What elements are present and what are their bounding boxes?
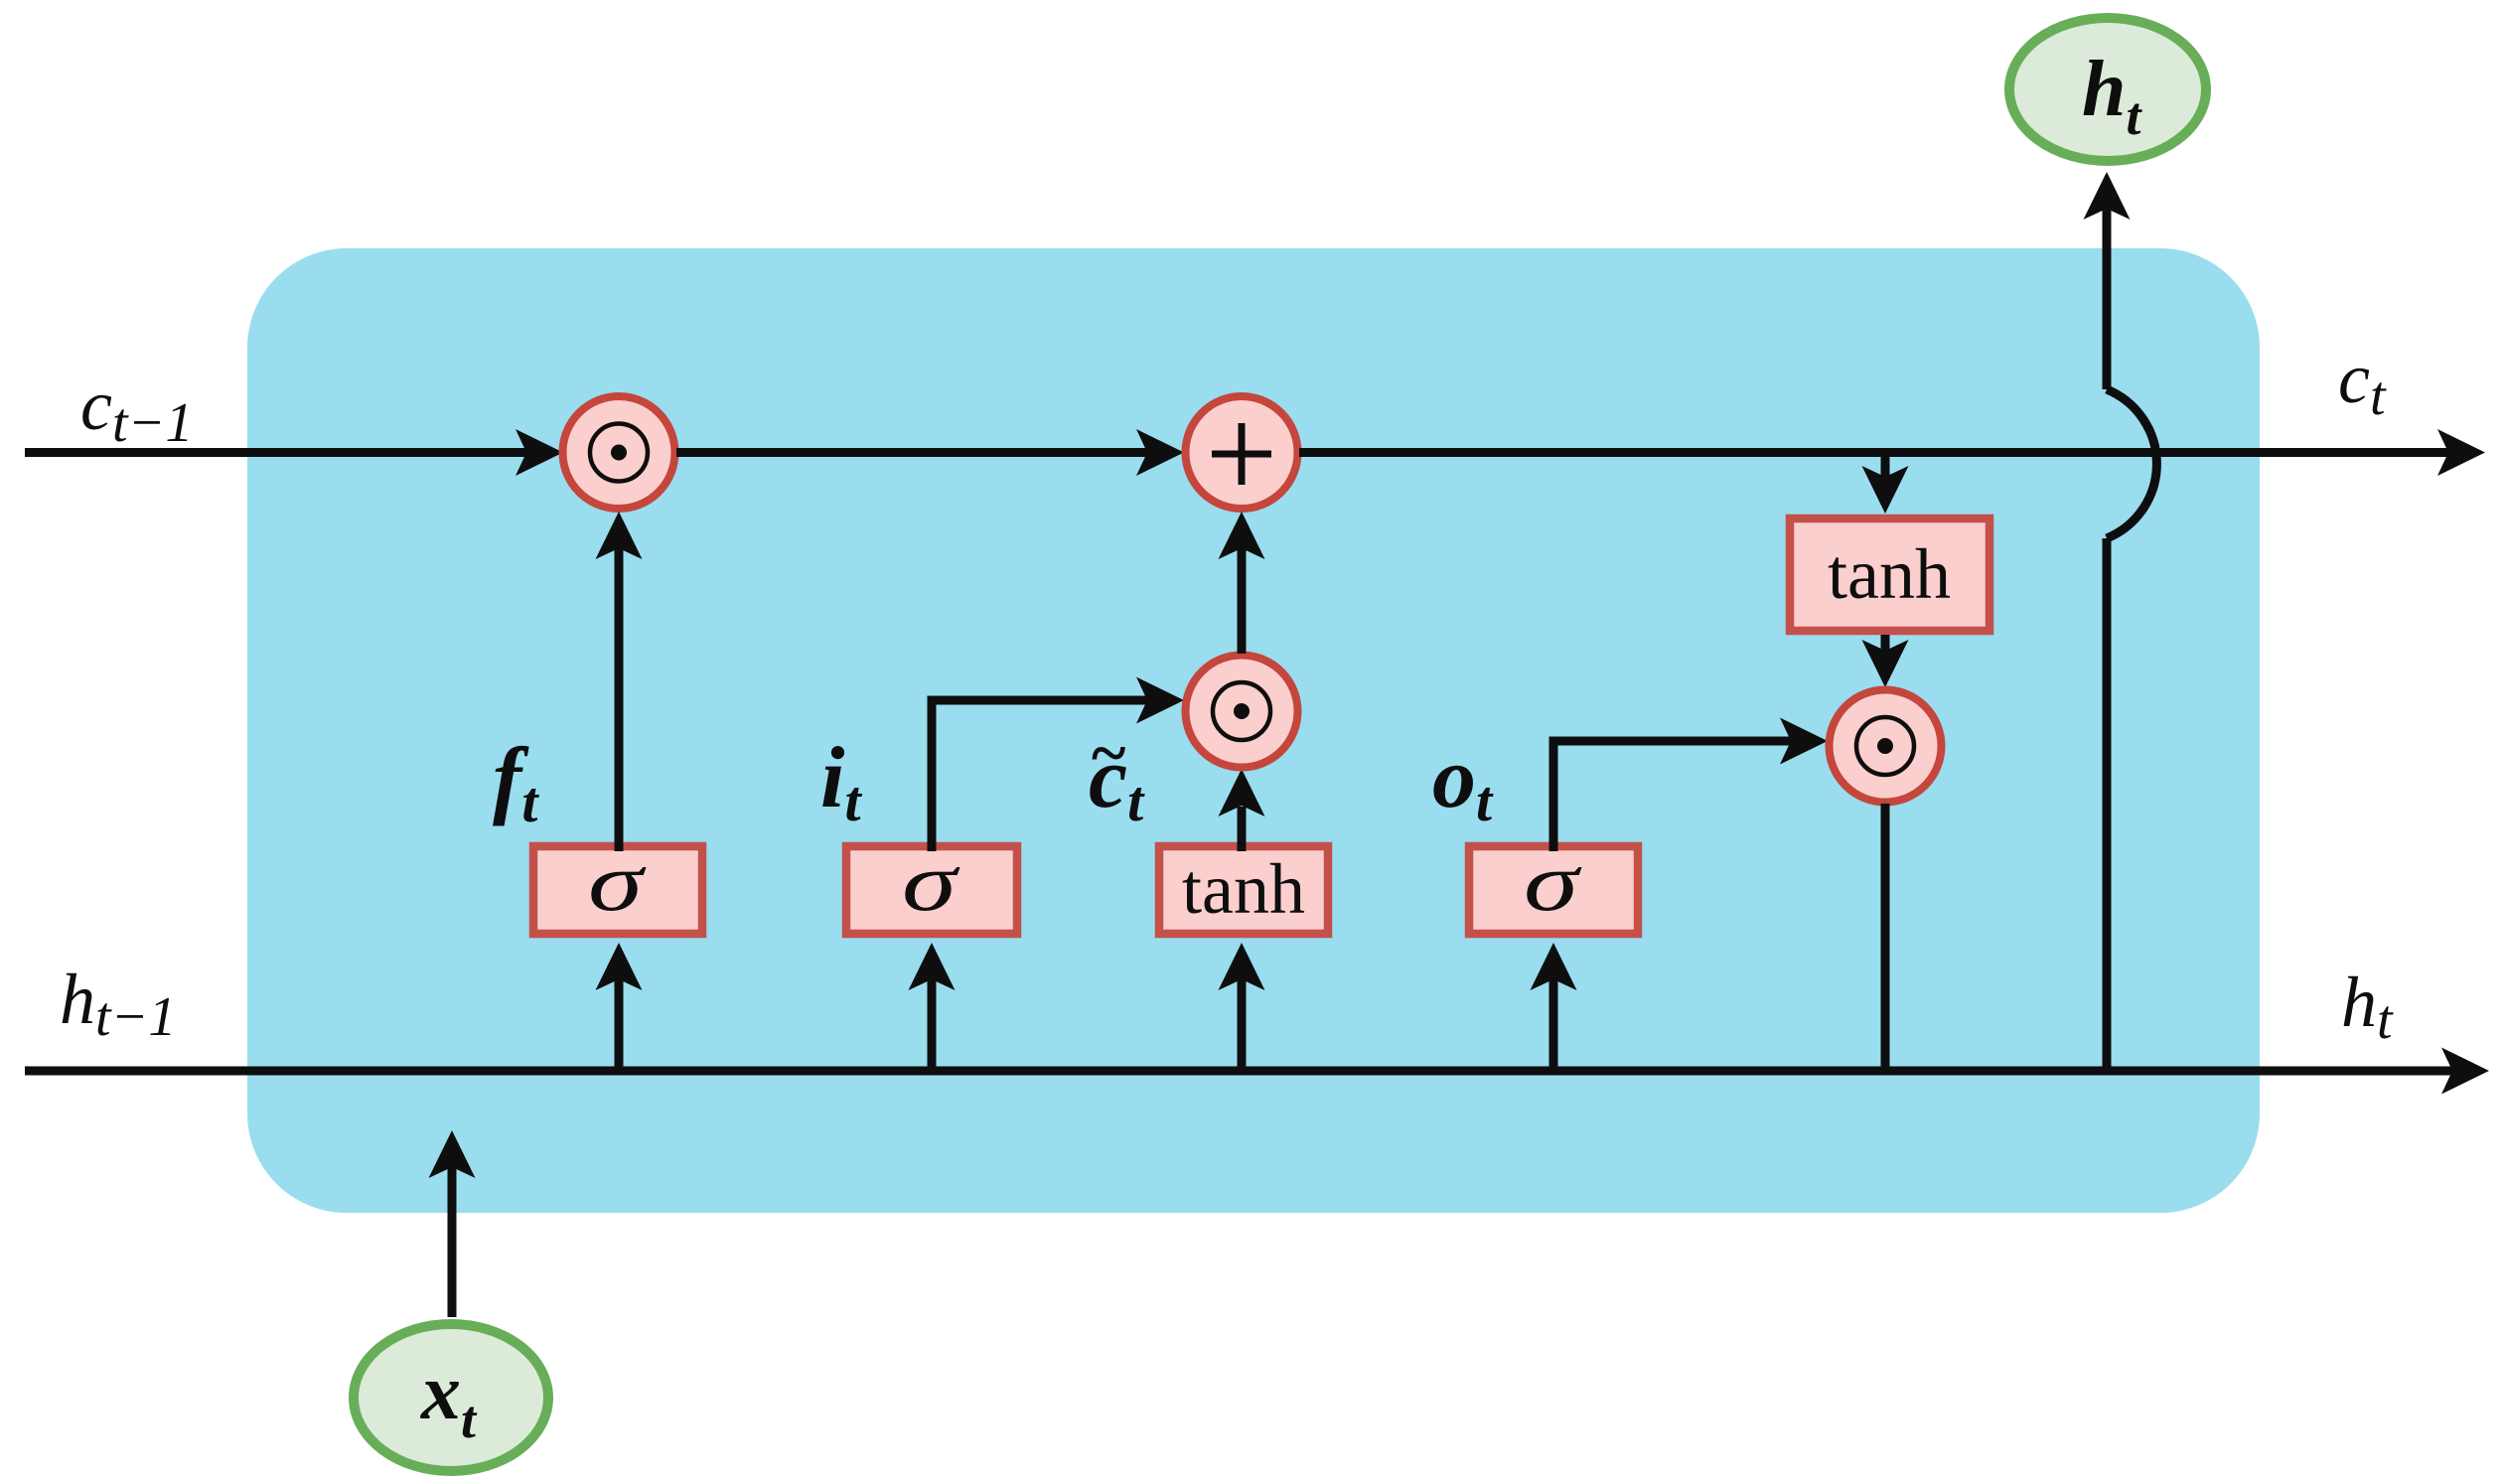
tanh gate output box <box>1790 519 1989 631</box>
svg-text:tanh: tanh <box>1828 534 1951 614</box>
wire from forget gate to add gate <box>676 429 1184 476</box>
wire candidate multiply to add gate arrow <box>1219 512 1265 654</box>
wire sigma-o elbow to output multiply gate <box>1553 718 1828 852</box>
svg-text:tanh: tanh <box>1182 849 1305 929</box>
wire c line down into tanh-output arrow <box>1862 453 1909 515</box>
tanh gate candidate box <box>1159 846 1328 934</box>
sigma gate o box <box>1469 836 1638 934</box>
wire h_t up with hop over c line <box>2084 172 2157 1071</box>
LSTM cell body (blue rounded rectangle) <box>247 248 2260 1213</box>
wire h to sigma-f arrow <box>596 943 643 1071</box>
sigma gate i box <box>846 836 1017 934</box>
svg-text:~: ~ <box>1092 717 1125 790</box>
wire c_{t-1} input segment <box>25 429 563 476</box>
wire h_{t-1} / h_t bottom line <box>25 1048 2489 1095</box>
output multiply gate circle <box>1830 690 1942 803</box>
add gate circle <box>1186 396 1298 509</box>
wire c_t output segment <box>1299 429 2485 476</box>
wire tanh-candidate to multiply gate arrow <box>1219 769 1265 851</box>
multiply gate (forget) circle <box>563 396 675 509</box>
wire h to sigma-o arrow <box>1531 943 1577 1071</box>
svg-text:ht: ht <box>2341 963 2394 1051</box>
node h_t output ellipse <box>2009 18 2206 161</box>
svg-text:ct−1: ct−1 <box>80 366 193 454</box>
wire h to tanh-candidate arrow <box>1219 943 1265 1071</box>
wire sigma-f to multiply gate arrow <box>596 512 643 851</box>
node x_t input ellipse <box>354 1324 548 1471</box>
label c~_t <box>1089 717 1145 833</box>
wire h to sigma-i arrow <box>909 943 956 1071</box>
wire tanh-output to output multiply gate arrow <box>1862 635 1909 687</box>
sigma gate f box <box>533 836 702 934</box>
wire x_t up into cell arrow <box>429 1130 476 1317</box>
wire output multiply gate down to h line <box>1881 804 1890 1071</box>
svg-text:ct: ct <box>2338 339 2387 427</box>
candidate multiply gate circle <box>1186 656 1298 768</box>
wire sigma-i elbow to candidate multiply gate <box>932 677 1184 852</box>
svg-text:ht−1: ht−1 <box>60 960 176 1048</box>
